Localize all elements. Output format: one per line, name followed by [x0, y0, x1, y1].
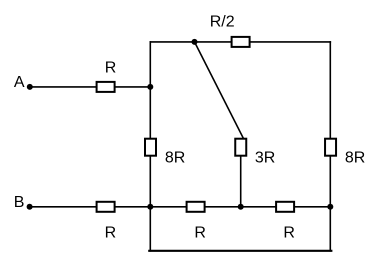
node terminal A dot — [27, 84, 33, 90]
node junction B rail / 3R stem — [238, 204, 244, 210]
node junction B rail / left vertical — [147, 204, 153, 210]
svg-text:R/2: R/2 — [210, 13, 235, 30]
svg-text:B: B — [14, 194, 25, 211]
svg-text:R: R — [194, 224, 206, 241]
wire right vertical — [329, 42, 331, 251]
node junction A-rail / left vertical — [147, 84, 153, 90]
wire from B along middle rail — [30, 206, 331, 208]
node junction top rail / diagonal — [192, 39, 198, 45]
resistor 8R (right vertical) — [325, 139, 336, 156]
resistor R (series with A) — [97, 82, 115, 92]
resistor R (B rail left) — [187, 202, 205, 212]
wire 3R bottom stem — [240, 157, 242, 207]
resistor 8R (left vertical) — [145, 139, 156, 156]
wire from A to node — [30, 86, 151, 88]
resistor R (B rail right) — [276, 202, 294, 212]
resistor R (series with B) — [97, 202, 115, 212]
svg-text:A: A — [14, 74, 25, 91]
svg-text:R: R — [105, 224, 117, 241]
wire left vertical — [149, 42, 151, 251]
svg-text:R: R — [105, 60, 117, 77]
svg-text:R: R — [283, 224, 295, 241]
wire top rail — [150, 41, 330, 43]
node terminal B dot — [27, 204, 33, 210]
svg-text:3R: 3R — [255, 149, 275, 166]
wire diagonal from top node to 3R — [195, 42, 244, 138]
resistor R/2 (top rail) — [232, 37, 250, 47]
resistor 3R (middle vertical) — [235, 139, 246, 156]
svg-text:8R: 8R — [165, 149, 185, 166]
node junction B rail / right vertical — [327, 204, 333, 210]
svg-text:8R: 8R — [345, 149, 365, 166]
wire bottom return — [149, 250, 331, 252]
